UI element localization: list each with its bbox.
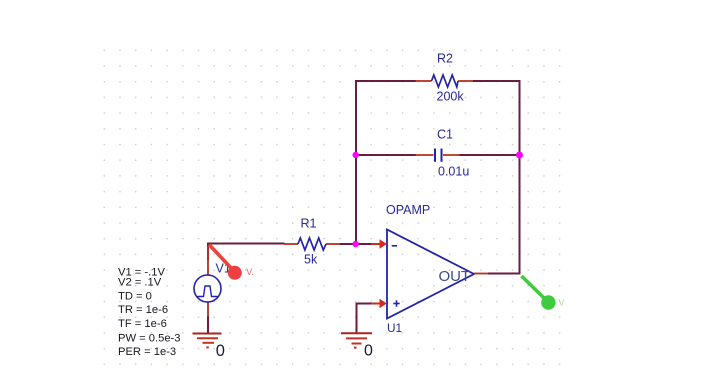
pin arrow minus input (371, 239, 387, 248)
wire node to minus pin (356, 243, 372, 245)
svg-text:R2: R2 (437, 52, 453, 66)
svg-text:0.01u: 0.01u (438, 165, 469, 179)
V1 parameter text block (118, 267, 181, 359)
svg-text:V: V (559, 298, 565, 308)
svg-text:PER = 1e-3: PER = 1e-3 (118, 346, 176, 358)
ground 0 (at plus input) (341, 333, 372, 347)
capacitor C1 (416, 149, 460, 162)
resistor R2 (416, 75, 474, 87)
pin lead output (474, 273, 488, 275)
wire V1 bottom to ground (207, 316, 209, 333)
svg-text:0: 0 (364, 342, 373, 359)
svg-text:V2 = .1V: V2 = .1V (118, 277, 162, 289)
svg-text:V.: V. (246, 267, 254, 277)
svg-text:OUT: OUT (439, 268, 471, 285)
voltage probe (red, input) (209, 245, 254, 280)
wire middle horizontal (C1 branch) (356, 154, 520, 156)
resistor R1 (284, 238, 340, 250)
ground 0 (under V1) (193, 334, 222, 348)
svg-text:OPAMP: OPAMP (386, 203, 430, 217)
wire input row (V1 to inverting node) (208, 244, 356, 261)
svg-text:PW = 0.5e-3: PW = 0.5e-3 (118, 332, 181, 344)
svg-text:R1: R1 (301, 217, 317, 231)
svg-text:200k: 200k (437, 90, 465, 104)
svg-text:C1: C1 (437, 128, 453, 142)
voltage source V1 (194, 246, 221, 317)
wire right vertical (feedback to output) (488, 80, 520, 274)
wire ground to plus pin (357, 304, 373, 334)
pin arrow plus input (371, 299, 387, 308)
svg-text:TD = 0: TD = 0 (118, 291, 152, 303)
svg-text:0: 0 (216, 342, 225, 360)
svg-text:5k: 5k (304, 253, 318, 267)
junction node (C1 left) (353, 152, 359, 158)
op-amp U1 (387, 230, 474, 319)
svg-text:TR = 1e-6: TR = 1e-6 (118, 304, 168, 316)
junction node (C1 right) (516, 152, 523, 159)
svg-text:TF = 1e-6: TF = 1e-6 (118, 318, 167, 330)
wire feedback top (R2 branch) (356, 81, 521, 245)
voltage probe (green, output) (522, 276, 565, 310)
svg-text:U1: U1 (387, 321, 402, 335)
junction node (inverting input) (353, 241, 359, 247)
